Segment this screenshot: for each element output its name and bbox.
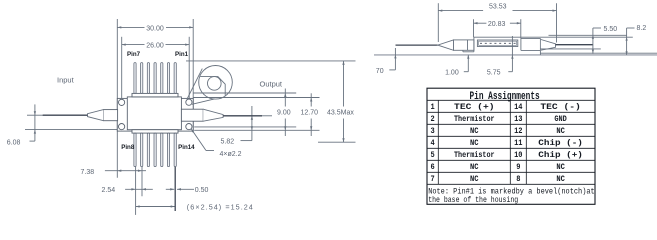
svg-text:Thermistor: Thermistor bbox=[454, 114, 495, 124]
svg-text:9.00: 9.00 bbox=[277, 110, 291, 117]
svg-text:4×ø2.2: 4×ø2.2 bbox=[220, 151, 242, 158]
svg-text:0.50: 0.50 bbox=[195, 187, 209, 194]
svg-text:1: 1 bbox=[431, 102, 435, 112]
svg-text:1.00: 1.00 bbox=[445, 69, 459, 76]
svg-text:12.70: 12.70 bbox=[301, 110, 319, 117]
svg-text:2.54: 2.54 bbox=[102, 187, 116, 194]
svg-text:8.2: 8.2 bbox=[637, 25, 647, 32]
svg-text:Pin1: Pin1 bbox=[175, 51, 189, 58]
svg-text:TEC (-): TEC (-) bbox=[540, 102, 581, 112]
svg-text:7: 7 bbox=[431, 174, 435, 184]
svg-text:9: 9 bbox=[516, 162, 520, 172]
svg-text:14: 14 bbox=[514, 102, 522, 112]
svg-text:Thermistor: Thermistor bbox=[454, 150, 495, 160]
svg-text:11: 11 bbox=[514, 138, 522, 148]
svg-text:Pin7: Pin7 bbox=[127, 51, 141, 58]
svg-text:Pin8: Pin8 bbox=[121, 144, 135, 151]
svg-text:10: 10 bbox=[514, 150, 522, 160]
svg-text:Output: Output bbox=[260, 80, 283, 89]
svg-text:NC: NC bbox=[470, 162, 479, 172]
svg-text:7.38: 7.38 bbox=[81, 169, 95, 176]
svg-text:43.5Max: 43.5Max bbox=[327, 110, 354, 117]
svg-text:NC: NC bbox=[556, 126, 565, 136]
svg-text:30.00: 30.00 bbox=[146, 25, 164, 32]
svg-text:Input: Input bbox=[57, 75, 75, 84]
svg-text:GND: GND bbox=[554, 114, 566, 124]
svg-text:13: 13 bbox=[514, 114, 522, 124]
svg-text:5.82: 5.82 bbox=[221, 139, 235, 146]
svg-text:2: 2 bbox=[431, 114, 435, 124]
svg-text:Chip (-): Chip (-) bbox=[538, 138, 583, 148]
svg-text:the base of the housing: the base of the housing bbox=[428, 196, 518, 205]
svg-text:5: 5 bbox=[431, 150, 435, 160]
svg-text:TEC (+): TEC (+) bbox=[454, 102, 495, 112]
svg-text:5.50: 5.50 bbox=[604, 26, 618, 33]
svg-text:Chip (+): Chip (+) bbox=[538, 150, 583, 160]
svg-text:NC: NC bbox=[556, 174, 565, 184]
svg-text:8: 8 bbox=[516, 174, 520, 184]
svg-text:12: 12 bbox=[514, 126, 522, 136]
svg-text:26.00: 26.00 bbox=[146, 43, 164, 50]
svg-text:4: 4 bbox=[431, 138, 435, 148]
svg-text:NC: NC bbox=[470, 174, 479, 184]
svg-text:6.08: 6.08 bbox=[7, 140, 21, 147]
svg-text:20.83: 20.83 bbox=[488, 21, 506, 28]
svg-text:Pin14: Pin14 bbox=[178, 144, 195, 151]
svg-text:NC: NC bbox=[470, 126, 479, 136]
svg-text:5.75: 5.75 bbox=[487, 69, 501, 76]
svg-text:NC: NC bbox=[556, 162, 565, 172]
svg-text:6: 6 bbox=[431, 162, 435, 172]
svg-text:(6×2.54) =15.24: (6×2.54) =15.24 bbox=[187, 203, 253, 212]
svg-text:53.53: 53.53 bbox=[489, 3, 507, 10]
svg-text:3: 3 bbox=[431, 126, 435, 136]
svg-text:NC: NC bbox=[470, 138, 479, 148]
svg-text:70: 70 bbox=[376, 68, 384, 75]
